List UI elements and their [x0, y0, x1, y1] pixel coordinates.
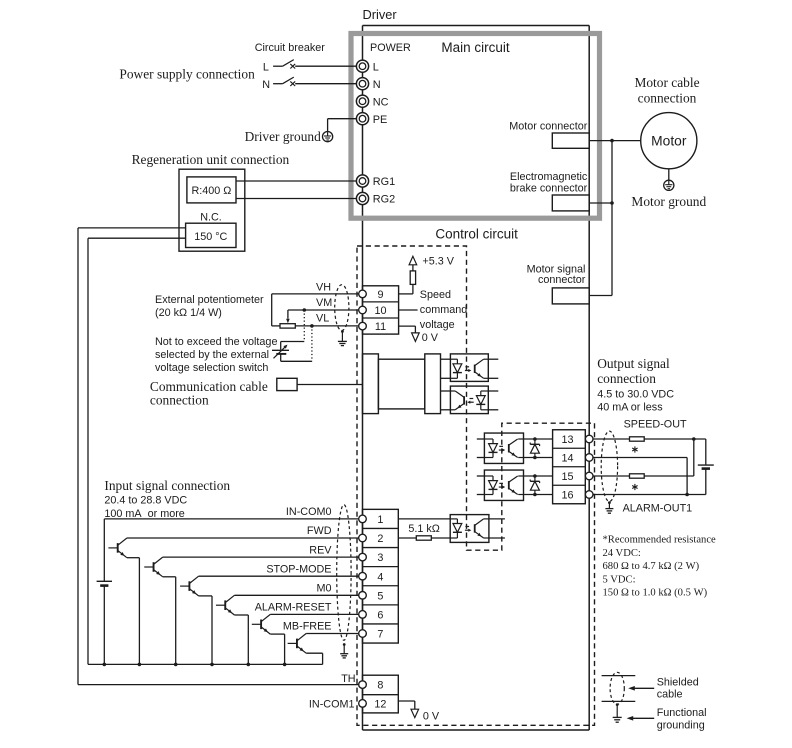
wire R400 to RG2 — [236, 198, 356, 200]
wire 9 to +5.3V — [399, 293, 413, 295]
wire thermostat lower to bus rail — [88, 237, 186, 239]
svg-text:Power supply connection: Power supply connection — [119, 67, 255, 82]
zener diode D2 — [533, 474, 537, 478]
svg-text:Functional: Functional — [657, 707, 707, 719]
label asterisk 1 (recommended resistance) — [634, 446, 636, 452]
main circuit box (gray) — [351, 34, 600, 219]
svg-text:40 mA or less: 40 mA or less — [597, 402, 663, 414]
svg-text:PE: PE — [373, 114, 388, 126]
terminal 13 — [585, 435, 593, 443]
regeneration unit outer box — [179, 169, 245, 251]
svg-text:selected by the external: selected by the external — [155, 349, 269, 361]
terminal 8 — [359, 681, 367, 689]
svg-text:3: 3 — [377, 552, 383, 564]
svg-text:NC: NC — [373, 96, 389, 108]
junction bus Q4 — [247, 663, 251, 667]
svg-text:(20 kΩ 1/4 W): (20 kΩ 1/4 W) — [155, 307, 222, 319]
wire MB-FREE collector — [306, 633, 359, 635]
ribbon connector body — [378, 359, 424, 409]
wire 12 to 0V — [398, 700, 415, 702]
terminal 14 — [585, 454, 593, 462]
svg-text:connector: connector — [538, 274, 586, 286]
wire motor signal connector — [589, 295, 612, 297]
svg-text:connection: connection — [597, 371, 656, 386]
svg-text:SPEED-OUT: SPEED-OUT — [624, 419, 687, 431]
junction out 13 — [692, 437, 696, 441]
wire REV collector — [163, 556, 359, 558]
svg-text:connection: connection — [150, 393, 209, 408]
svg-text:N: N — [262, 79, 270, 91]
transistor Q2 base stub — [144, 566, 153, 568]
transistor Q1 base stub — [108, 547, 117, 549]
svg-text:VH: VH — [316, 281, 331, 293]
svg-text:TH: TH — [341, 673, 355, 685]
transistor Q3 (STOP-MODE) — [188, 581, 190, 591]
wire dotted VM to switch — [303, 310, 305, 342]
svg-text:command: command — [420, 304, 467, 316]
wire switch top — [281, 341, 305, 343]
wire L to terminal — [295, 65, 356, 67]
svg-text:14: 14 — [561, 453, 573, 465]
junction bus Q1 — [138, 663, 142, 667]
svg-text:N: N — [373, 79, 381, 91]
svg-text:MB-FREE: MB-FREE — [283, 621, 332, 633]
circuit breaker pole L — [273, 65, 283, 67]
svg-text:5 VDC:: 5 VDC: — [603, 574, 636, 585]
optocoupler PC3 coupling — [499, 445, 503, 447]
optocoupler PC4 phototransistor — [508, 481, 510, 489]
shield drain stem 13-16 — [608, 503, 610, 509]
svg-text:RG2: RG2 — [373, 194, 395, 206]
junction brake wire — [610, 201, 614, 205]
svg-text:grounding: grounding — [657, 719, 705, 731]
terminal block 9-11 box — [363, 286, 399, 334]
potentiometer wiper arrow — [286, 319, 290, 323]
svg-text:connection: connection — [638, 91, 697, 106]
wire PE to driver ground — [328, 118, 357, 120]
wire driver boundary bottom — [363, 729, 590, 731]
svg-text:REV: REV — [309, 544, 332, 556]
wire resistor to arrow — [412, 265, 414, 271]
wire ribbon pin3 — [441, 390, 451, 392]
wire FWD collector — [127, 537, 359, 539]
svg-text:7: 7 — [377, 629, 383, 641]
brake connector box — [552, 195, 589, 211]
wire motor bus down — [611, 141, 613, 296]
terminal RG2 — [356, 192, 368, 204]
wire 10 tick — [399, 309, 418, 311]
wire PC4 LED stub bottom — [477, 494, 485, 496]
wire resistor to opto — [431, 537, 450, 539]
svg-text:Control circuit: Control circuit — [435, 227, 518, 242]
svg-text:Not to exceed the voltage: Not to exceed the voltage — [155, 336, 277, 348]
wire PC4 collector to terminal — [524, 475, 553, 477]
svg-text:8: 8 — [377, 680, 383, 692]
wire 14 out — [593, 457, 687, 459]
ground shield 1-7 — [340, 653, 348, 655]
wire VM — [288, 309, 359, 311]
wire PC1 emitter stub — [488, 377, 498, 379]
junction VL tap — [310, 324, 314, 328]
wire PC3 collector to terminal — [524, 438, 553, 440]
wire thermostat upper to TH rail — [78, 227, 186, 229]
wire driver boundary right rail — [588, 26, 590, 731]
wire Q2 emitter — [163, 576, 176, 578]
transistor Q3 base stub — [180, 585, 189, 587]
terminal block 8-12 box — [363, 675, 399, 713]
svg-text:0 V: 0 V — [423, 711, 440, 723]
optocoupler PC2 box — [450, 386, 488, 414]
optocoupler PC5 LED — [450, 518, 457, 520]
svg-text:4: 4 — [377, 571, 383, 583]
terminal RG1 — [356, 175, 368, 187]
terminal 1 — [359, 515, 367, 523]
svg-text:ALARM-RESET: ALARM-RESET — [255, 602, 332, 614]
svg-text:+5.3 V: +5.3 V — [422, 255, 454, 267]
svg-text:L: L — [373, 61, 379, 73]
svg-text:Communication cable: Communication cable — [150, 379, 268, 394]
junction bus Q5 — [283, 663, 287, 667]
svg-text:Input signal connection: Input signal connection — [104, 478, 230, 493]
svg-text:Output signal: Output signal — [597, 356, 670, 371]
svg-text:12: 12 — [374, 699, 386, 711]
wire PC5 emitter stub — [489, 537, 505, 539]
ground shield 9-11 — [338, 340, 347, 342]
optocoupler PC5 coupling — [465, 526, 469, 528]
wire Q5 emitter — [270, 633, 284, 635]
svg-text:Motor connector: Motor connector — [509, 120, 587, 132]
optocoupler PC2 coupling — [470, 398, 474, 400]
optocoupler PC5 phototransistor — [474, 524, 476, 532]
svg-text:STOP-MODE: STOP-MODE — [266, 563, 331, 575]
svg-text:Driver: Driver — [363, 7, 398, 22]
wire VH — [272, 293, 359, 295]
transistor Q4 base stub — [216, 604, 225, 606]
wire switch bottom — [280, 354, 282, 361]
wire motor to ground — [668, 169, 670, 181]
legend wire bottom — [602, 700, 636, 702]
shield drain stem 9-11 — [341, 332, 343, 342]
optocoupler PC3 phototransistor — [508, 444, 510, 452]
transistor Q6 (MB-FREE) — [296, 639, 298, 649]
svg-text:Motor: Motor — [651, 133, 687, 148]
shield drain dot 9-11 — [341, 330, 344, 333]
motor connector box — [552, 133, 589, 148]
label asterisk 2 (recommended resistance) — [634, 484, 636, 490]
wire TH — [78, 684, 359, 686]
ribbon connector shell B — [425, 354, 441, 414]
wire ribbon pin4 — [441, 409, 451, 411]
svg-text:POWER: POWER — [370, 42, 411, 54]
svg-text:20.4 to 28.8 VDC: 20.4 to 28.8 VDC — [104, 495, 187, 507]
svg-text:100 mA or more: 100 mA or more — [104, 508, 184, 520]
junction bus battery — [103, 663, 107, 667]
wire N to terminal — [295, 83, 356, 85]
legend drain stem — [616, 705, 618, 718]
wire VL — [295, 325, 358, 327]
wire PC2 cathode stub — [488, 409, 498, 411]
motor signal connector box — [552, 288, 589, 304]
resistor pullup 5.3V — [410, 271, 415, 285]
legend wire top — [602, 675, 636, 677]
shield drain dot 13-16 — [608, 501, 611, 504]
terminal 3 — [359, 553, 367, 561]
terminal 15 — [585, 472, 593, 480]
ribbon connector shell A — [363, 354, 379, 414]
optocoupler PC1 LED — [450, 358, 457, 360]
terminal 6 — [359, 611, 367, 619]
svg-text:6: 6 — [377, 610, 383, 622]
svg-text:150 °C: 150 °C — [194, 231, 227, 243]
svg-text:FWD: FWD — [307, 525, 332, 537]
ground driver (protective earth) — [323, 132, 333, 142]
svg-text:Shielded: Shielded — [657, 677, 699, 689]
shield drain dot 1-7 — [343, 643, 346, 646]
wire 2 to resistor — [398, 537, 416, 539]
junction bus Q3 — [210, 663, 214, 667]
ground shield 13-16 — [605, 508, 613, 510]
ground motor (protective earth) — [664, 180, 674, 190]
svg-text:IN-COM0: IN-COM0 — [286, 506, 332, 518]
svg-text:9: 9 — [377, 289, 383, 301]
svg-text:Regeneration unit connection: Regeneration unit connection — [132, 152, 290, 167]
svg-text:voltage: voltage — [420, 319, 455, 331]
terminal 10 — [359, 306, 367, 314]
resistor 5.1k — [416, 536, 431, 540]
wire Q1 emitter — [127, 557, 139, 559]
svg-text:680 Ω to 4.7 kΩ (2 W): 680 Ω to 4.7 kΩ (2 W) — [603, 561, 700, 572]
wire 13 out — [593, 438, 630, 440]
svg-text:13: 13 — [561, 434, 573, 446]
shield drain stem 1-7 — [343, 645, 345, 654]
optocoupler PC3 box — [484, 433, 523, 463]
wire comm plug to driver — [297, 384, 362, 386]
optocoupler PC4 coupling — [499, 482, 503, 484]
wire motor connector to motor — [589, 140, 641, 142]
transistor Q2 (REV) — [153, 562, 155, 572]
wire Q4 emitter — [234, 614, 248, 616]
control circuit dashed boundary — [357, 246, 595, 725]
svg-text:150 Ω to 1.0 kΩ (0.5 W): 150 Ω to 1.0 kΩ (0.5 W) — [603, 588, 708, 599]
optocoupler PC1 phototransistor — [474, 365, 476, 373]
wire brake connector — [589, 202, 612, 204]
svg-text:VM: VM — [316, 297, 332, 309]
wire ribbon pin1 — [441, 358, 451, 360]
optocoupler PC4 LED — [484, 475, 493, 477]
svg-text:Driver ground: Driver ground — [245, 129, 322, 144]
svg-text:External potentiometer: External potentiometer — [155, 294, 264, 306]
wire 1 to opto — [398, 518, 450, 520]
terminal 7 — [359, 630, 367, 638]
terminal PE — [356, 113, 368, 125]
optocoupler PC4 box — [484, 470, 523, 500]
terminal block 1-7 box — [363, 509, 399, 643]
svg-text:RG1: RG1 — [373, 176, 395, 188]
wire PC4 LED stub top — [477, 475, 485, 477]
zener diode D1 — [533, 437, 537, 441]
svg-text:5: 5 — [377, 590, 383, 602]
legend shield ellipse — [610, 672, 624, 704]
svg-text:24 VDC:: 24 VDC: — [603, 548, 641, 559]
wire ALARM-RESET collector — [270, 613, 358, 615]
legend arrow grounding — [630, 717, 654, 719]
transistor Q1 (FWD) — [117, 543, 119, 553]
resistor R:400 ohm box — [187, 177, 236, 203]
terminal 4 — [359, 572, 367, 580]
wire M0 collector — [234, 594, 358, 596]
svg-text:L: L — [263, 61, 269, 73]
svg-text:11: 11 — [375, 321, 386, 333]
resistor speed-out — [630, 437, 645, 441]
terminal 16 — [585, 491, 593, 499]
junction VM tap — [303, 308, 307, 312]
terminal 2 — [359, 534, 367, 542]
motor M1 — [641, 113, 697, 169]
optocoupler PC1 coupling — [465, 366, 469, 368]
transistor Q5 (ALARM-RESET) — [260, 620, 262, 630]
optocoupler PC3 LED — [484, 438, 493, 440]
transistor Q4 (M0) — [224, 600, 226, 610]
wire IN-COM0 — [104, 518, 358, 520]
svg-text:16: 16 — [561, 490, 573, 502]
wire PC2 anode stub — [488, 390, 498, 392]
terminal 9 — [359, 290, 367, 298]
circuit breaker pole N — [273, 83, 283, 85]
legend drain dot — [616, 703, 619, 706]
wire 13 out b — [644, 438, 706, 440]
svg-text:Electromagnetic: Electromagnetic — [510, 171, 588, 183]
wire PC3 LED stub bottom — [477, 457, 485, 459]
ground 0V arrow (in-com1) — [411, 709, 419, 717]
wire 15 out b — [644, 475, 694, 477]
shield ellipse 13-16 — [601, 431, 617, 501]
wire 11 to 0V — [399, 325, 416, 327]
svg-text:Main circuit: Main circuit — [441, 40, 510, 55]
svg-text:IN-COM1: IN-COM1 — [309, 699, 355, 711]
svg-text:ALARM-OUT1: ALARM-OUT1 — [623, 502, 693, 514]
shield ellipse 9-11 — [335, 285, 349, 331]
svg-text:*Recommended resistance: *Recommended resistance — [603, 535, 717, 546]
wire R400 to RG1 — [236, 180, 356, 182]
junction out 16 — [685, 493, 689, 497]
wire PC1 collector stub — [488, 358, 498, 360]
wire ribbon pin2 — [441, 377, 451, 379]
wire driver boundary left rail — [362, 26, 364, 731]
svg-text:M0: M0 — [317, 583, 332, 595]
wire STOP-MODE collector — [199, 575, 359, 577]
voltage selection switch (variable) — [272, 349, 289, 351]
wire emitter bus — [88, 663, 323, 665]
ground functional — [613, 716, 622, 718]
terminal L — [356, 60, 368, 72]
potentiometer VR1 body — [280, 324, 295, 328]
terminal 11 — [359, 322, 367, 330]
wire Q3 emitter — [199, 595, 212, 597]
junction bus Q2 — [174, 663, 178, 667]
thermostat 150C box — [186, 223, 236, 247]
svg-text:N.C.: N.C. — [200, 211, 222, 223]
svg-text:1: 1 — [377, 514, 383, 526]
optocoupler PC1 box — [450, 354, 488, 382]
communication cable plug — [277, 378, 297, 390]
battery external (input) — [103, 519, 105, 581]
transistor Q6 base stub — [288, 642, 297, 644]
junction motor wire — [610, 139, 614, 143]
terminal 5 — [359, 592, 367, 600]
svg-text:15: 15 — [561, 471, 573, 483]
svg-text:5.1 kΩ: 5.1 kΩ — [408, 523, 439, 535]
svg-text:Speed: Speed — [420, 289, 451, 301]
wire PC3 LED stub top — [477, 438, 485, 440]
wire 15 out — [593, 475, 630, 477]
wire Q6 emitter — [306, 652, 322, 654]
svg-text:Motor cable: Motor cable — [634, 75, 699, 90]
terminal N — [356, 78, 368, 90]
svg-text:0 V: 0 V — [422, 332, 439, 344]
terminal block 13-16 box — [553, 430, 586, 504]
legend arrow shielded — [632, 687, 654, 689]
svg-text:2: 2 — [377, 533, 383, 545]
wire dotted VL to switch — [311, 326, 313, 361]
svg-text:R:400 Ω: R:400 Ω — [191, 185, 231, 197]
svg-text:voltage selection switch: voltage selection switch — [155, 362, 268, 374]
terminal 12 — [359, 700, 367, 708]
shield ellipse 1-7 — [337, 505, 351, 641]
wire PC5 collector stub — [489, 518, 505, 520]
transistor Q5 base stub — [252, 623, 261, 625]
wire driver boundary top — [363, 25, 590, 27]
ground 0V arrow (speed ref) — [412, 333, 420, 342]
wire PC3 emitter to terminal — [524, 457, 553, 459]
optocoupler PC2 LED — [481, 390, 489, 392]
optocoupler PC5 box — [450, 515, 489, 543]
svg-text:10: 10 — [374, 305, 386, 317]
optocoupler PC2 phototransistor — [463, 396, 465, 404]
svg-text:brake connector: brake connector — [510, 183, 588, 195]
svg-text:Circuit breaker: Circuit breaker — [255, 42, 326, 54]
terminal NC — [356, 95, 368, 107]
svg-text:cable: cable — [657, 688, 683, 700]
wire 16 out — [593, 494, 706, 496]
svg-text:Motor ground: Motor ground — [631, 194, 706, 209]
battery external (output) — [705, 439, 707, 465]
power +5.3V arrow — [409, 256, 417, 265]
svg-text:4.5 to 30.0 VDC: 4.5 to 30.0 VDC — [597, 389, 674, 401]
wire PC4 emitter to terminal — [524, 494, 553, 496]
svg-text:VL: VL — [316, 312, 329, 324]
resistor alarm-out — [630, 474, 645, 478]
